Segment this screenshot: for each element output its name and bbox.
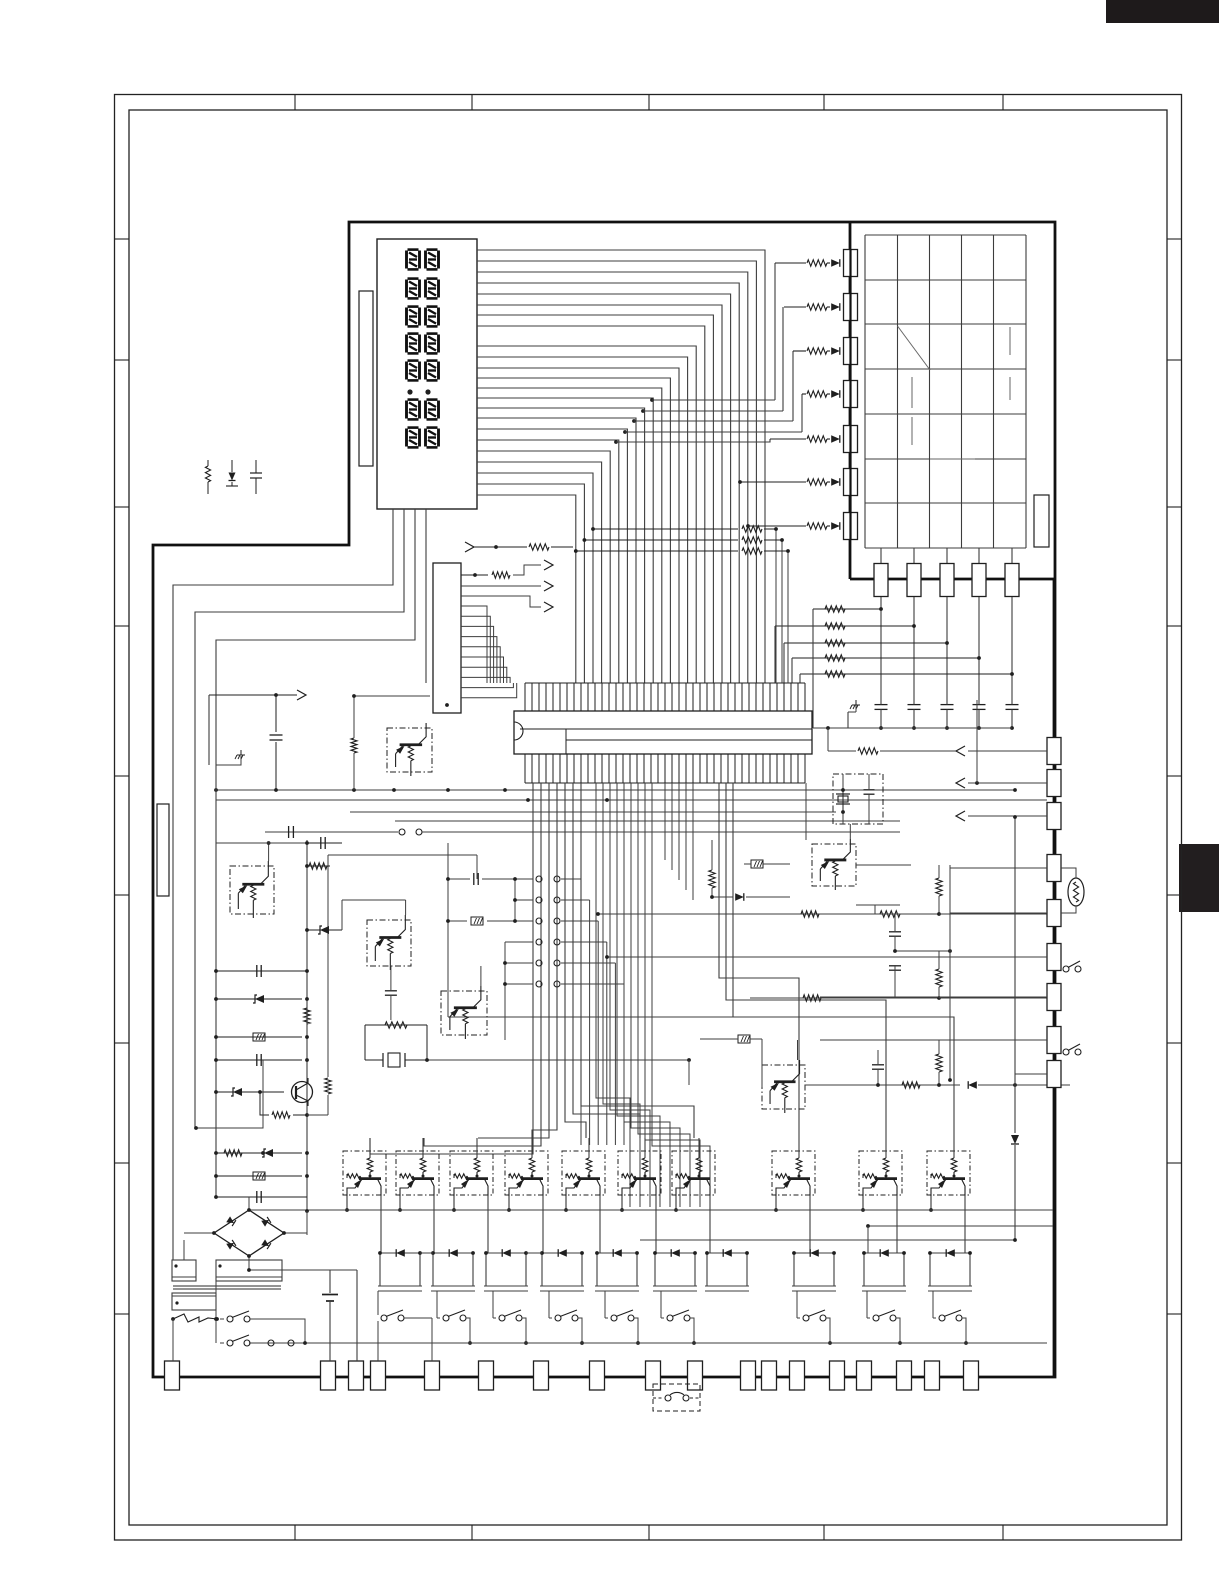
display unit DISP1 outline: [377, 239, 477, 509]
function switch S5: [667, 1315, 673, 1321]
contact pair 3: [515, 920, 533, 922]
keyboard row 4 resistor: [802, 393, 806, 395]
keyboard row 3 resistor: [793, 350, 806, 352]
ladder rung zener + transistor circle y1092: [216, 1091, 260, 1093]
arrow feed wire y547: [465, 542, 474, 552]
legend capacitor symbol: [255, 460, 257, 473]
ground symbol near columns: [855, 700, 857, 705]
legend diode symbol: [231, 460, 233, 472]
IC1 bottom fan to driver row: [370, 783, 533, 1154]
keyboard row 2 connector: [844, 294, 858, 321]
driver transistor Q4: [505, 1151, 548, 1195]
keyboard row 2 resistor: [784, 306, 806, 308]
bottom connector pin x797: [790, 1361, 805, 1390]
keyscan return resistor wire: [827, 728, 829, 751]
function switch S6: [803, 1315, 809, 1321]
right connector column wire: [1053, 579, 1056, 1377]
relay diode cell D3: [486, 1252, 526, 1254]
contact pair 6: [505, 983, 533, 985]
rail y1240: [640, 1239, 1015, 1241]
contact pair 1: [515, 878, 533, 880]
power entry box: [172, 1293, 216, 1310]
display bottom pin wire 4: [425, 509, 427, 683]
contact pair 4: [505, 941, 533, 943]
wire from ladder to resonator: [196, 1060, 263, 1128]
crystal X1 symbol: [836, 793, 850, 795]
driver transistor Q8: [772, 1151, 815, 1195]
display digit row 5: [407, 361, 420, 381]
bridge rectifier DB1: [214, 1210, 284, 1256]
crystal load capacitor: [864, 789, 875, 791]
right connector CN2-5: [1047, 900, 1061, 927]
capacitor above Q12: [307, 842, 342, 844]
relay diode cell D7: [707, 1252, 747, 1254]
horizontal power rail A: [216, 789, 1015, 791]
thermistor F3: [738, 1035, 750, 1043]
relay diode cell D5: [597, 1252, 637, 1254]
display side bar: [359, 291, 373, 466]
connector CN1 (left of IC): [433, 563, 461, 713]
bottom connector pin x748: [741, 1361, 756, 1390]
transistor Q16 block: [762, 1065, 805, 1109]
right connector CN2-6: [1047, 944, 1061, 971]
battery B1 loop: [330, 1269, 357, 1271]
wire x1015 vertical: [1014, 817, 1016, 1133]
function switch S8: [939, 1315, 945, 1321]
border zone ticks right: [1167, 238, 1182, 240]
capacitor to contact block: [476, 855, 478, 879]
rail y951: [895, 950, 950, 952]
driver transistor Q6: [618, 1151, 661, 1195]
IC1 top pin row: [525, 682, 805, 684]
bottom connector pin x837: [830, 1361, 845, 1390]
rail y1085 with diode: [805, 1084, 960, 1086]
IC1 bottom fan to right drivers: [719, 783, 799, 1138]
CN1 arrow signal 3: [461, 596, 541, 607]
relay diode cell D4: [542, 1252, 582, 1254]
resonator loop: [365, 1024, 427, 1026]
rail y998: [750, 997, 939, 999]
relay diode cell D6: [655, 1252, 695, 1254]
key matrix column 4 connector: [978, 548, 980, 567]
thermistor TH1 (oval): [1068, 878, 1084, 906]
CN1 output wires to IC: [461, 606, 487, 683]
contact pair 5: [505, 962, 533, 964]
relay diode cell D2: [433, 1252, 473, 1254]
diode cell top bus: [420, 1252, 433, 1254]
right connector CN2-2: [1047, 770, 1061, 797]
right connector CN2-3: [1047, 803, 1061, 830]
main circuit enclosure box: [153, 222, 1055, 1377]
function switch S1: [443, 1315, 449, 1321]
right mid resistor v1: [936, 878, 942, 896]
keyboard row 4 diode: [827, 393, 830, 395]
power switch S0a: [220, 1318, 224, 1320]
three bias resistors: [593, 528, 738, 530]
ladder rung thermistor y1037: [216, 1036, 302, 1038]
microcontroller IC1 body: [514, 711, 812, 754]
right connector CN2-9: [1047, 1061, 1061, 1088]
keyboard row 7 resistor: [748, 525, 806, 527]
border zone ticks left: [115, 238, 130, 240]
ladder rung cap y971: [216, 970, 302, 972]
ladder vertical resistor: [304, 1008, 310, 1024]
resistor below IC: [709, 870, 715, 888]
keyboard connector chain wire: [849, 249, 851, 540]
zener below Q12: [307, 929, 342, 931]
keyboard row 7 connector: [844, 513, 858, 540]
bottom connector pin x328: [321, 1361, 336, 1390]
reset resistor r1: [856, 904, 900, 906]
cap v mid: [889, 931, 901, 933]
driver transistor Q2: [396, 1151, 439, 1195]
crystal X1 block: [833, 774, 883, 824]
thermistor F2: [751, 860, 763, 868]
keyboard row 5 diode: [827, 438, 830, 440]
capacitor C (left mid): [275, 695, 277, 732]
display digit row 2: [407, 279, 420, 299]
left edge connector bar: [157, 804, 169, 896]
page edge zone marker (black): [1179, 844, 1219, 912]
right switch SW-A: [1063, 966, 1069, 972]
driver emitter rail: [249, 1209, 1053, 1211]
resistor below rail A: [351, 738, 357, 753]
left ladder rails: [215, 765, 217, 1197]
right connector CN2-4: [1047, 855, 1061, 882]
right connector CN2-1: [1047, 738, 1061, 765]
key matrix column 2 connector: [913, 548, 915, 567]
horizontal rail D: [395, 820, 900, 822]
keyboard row 5 connector: [844, 426, 858, 453]
Q15 wiring: [849, 824, 851, 839]
keyboard row 2 diode: [827, 306, 830, 308]
bottom connector pin x904: [897, 1361, 912, 1390]
ladder rung cap y1197: [216, 1196, 302, 1198]
breaker symbol: [171, 1317, 175, 1321]
transistor Q15 block: [812, 844, 856, 886]
long mid rail y1017: [448, 1016, 733, 1018]
driver transistor Q9: [859, 1151, 902, 1195]
cap under Q13: [390, 966, 392, 990]
relay diode cell D10: [930, 1252, 970, 1254]
wire from CN1 bottom: [445, 703, 449, 707]
right connector arrows: [968, 750, 1047, 752]
border zone ticks bottom: [294, 1525, 296, 1540]
keyboard row 1 resistor: [775, 262, 806, 264]
display output wire fan: [477, 250, 765, 683]
outer border frame: [115, 95, 1182, 1541]
key matrix column 5 connector: [1011, 548, 1013, 567]
bottom connector pin x769: [762, 1361, 777, 1390]
ground stub (left mid): [216, 756, 241, 765]
bottom connector pin x971: [964, 1361, 979, 1390]
display digit row 7: [407, 428, 420, 448]
diode D20: [712, 896, 733, 898]
contact pair on rail E: [399, 829, 405, 835]
column common ground wire: [813, 727, 1012, 729]
IC1 bottom pin row: [525, 782, 805, 784]
CN1 arrow signal 2: [461, 585, 541, 587]
key matrix column 1 connector: [880, 548, 882, 567]
inner border frame: [129, 110, 1167, 1525]
bottom connector pin x653: [646, 1361, 661, 1390]
display digit row 1: [407, 250, 420, 270]
driver transistor Q7: [672, 1151, 715, 1195]
isolated contact pair: [268, 1340, 274, 1346]
signal wire with arrow (left mid): [209, 694, 276, 696]
driver transistor Q5: [562, 1151, 605, 1195]
door switch (dashed): [653, 1384, 700, 1411]
display bottom pin wires: [173, 509, 393, 1260]
mains double underline: [173, 1285, 281, 1287]
display digit row 6: [407, 400, 420, 420]
function switch S2: [499, 1315, 505, 1321]
key matrix grid: [864, 235, 866, 548]
bottom connector pin x541: [534, 1361, 549, 1390]
resistor above Q12: [307, 865, 330, 867]
keyboard row 6 resistor: [740, 481, 806, 483]
legend resistor symbol: [207, 460, 209, 466]
function switch S7: [873, 1315, 879, 1321]
ladder rung zener y999: [216, 998, 302, 1000]
ladder rung resistor+zener y1153: [216, 1152, 302, 1154]
transistor Q11 (circle): [292, 1082, 313, 1103]
resistor right of Q11 (x328 branch): [327, 855, 329, 1077]
thermistor to contact block: [448, 920, 467, 922]
mains block box1: [172, 1260, 196, 1281]
rail y1226: [868, 1225, 1053, 1227]
keyboard row 5 resistor: [770, 438, 806, 440]
switch by battery S1: [381, 1315, 387, 1321]
relay diode cell D9: [864, 1252, 904, 1254]
bottom connector pin x378: [371, 1361, 386, 1390]
Q12 collector cap wire: [268, 843, 270, 861]
transistor Q12 block: [230, 866, 274, 914]
IC1 bottom verticals: [664, 783, 666, 860]
display digit row 3: [407, 307, 420, 327]
contact block frame: [514, 879, 516, 921]
keyboard row 7 diode: [827, 525, 830, 527]
keyboard row 3 diode: [827, 350, 830, 352]
bottom connector pin x864: [857, 1361, 872, 1390]
function switch S4: [611, 1315, 617, 1321]
keyboard row5 direct stair wire: [614, 440, 618, 444]
page corner tab (black): [1106, 0, 1219, 23]
transistor Q10 block: [387, 728, 432, 772]
contact pair 2: [515, 899, 533, 901]
driver transistor Q10: [927, 1151, 970, 1195]
key matrix aux rectangle: [1034, 495, 1049, 547]
keyboard row 4 connector: [844, 381, 858, 408]
horizontal power rail B: [216, 799, 1047, 801]
right rail x950 wires: [948, 1078, 952, 1082]
relay diode cell D1: [380, 1252, 420, 1254]
display digit row 4: [407, 334, 420, 354]
column pull resistors: [813, 608, 881, 610]
right mid rail y914: [598, 913, 939, 915]
driver transistor Q1: [343, 1151, 386, 1195]
keyboard section divider (thick): [849, 222, 852, 579]
column filter capacitors: [875, 704, 888, 706]
Q14 connections: [480, 966, 482, 986]
border zone ticks top: [294, 95, 296, 111]
cap v mid2: [889, 965, 901, 967]
key matrix internal key marks: [898, 326, 931, 370]
keyboard row 6 connector: [844, 469, 858, 496]
bottom connector pin x356: [349, 1361, 364, 1390]
key matrix column 3 connector: [946, 548, 948, 567]
driver transistor Q3: [450, 1151, 493, 1195]
function switch S3: [555, 1315, 561, 1321]
ceramic resonator X2: [365, 1059, 383, 1061]
mains block box2: [216, 1260, 282, 1281]
Q11 emitter resistor: [260, 1092, 269, 1115]
keyboard row 1 diode: [827, 262, 830, 264]
wire y855 from x328: [328, 854, 477, 856]
transistor Q13 block: [367, 920, 411, 966]
mid vertical bus x448: [447, 843, 449, 995]
right mid resistor v2: [936, 969, 942, 987]
right connector feed wires: [950, 867, 1047, 869]
transistor Q14 block: [441, 991, 487, 1035]
CN1 arrow signal 1: [461, 574, 488, 576]
cap v at 878,1067: [872, 1064, 884, 1066]
keyboard row stair wires: [650, 398, 654, 402]
ladder rung thermistor y1176: [216, 1175, 302, 1177]
keyboard row 1 connector: [844, 250, 858, 277]
diode D21 vertical: [1011, 1135, 1019, 1144]
capacitor left of Q13: [342, 899, 406, 901]
right connector CN2-7: [1047, 984, 1061, 1011]
power switch S0b: [227, 1340, 233, 1346]
bottom connector pin x172: [165, 1361, 180, 1390]
bottom connector pin x597: [590, 1361, 605, 1390]
right mid resistor v3: [936, 1054, 942, 1072]
horizontal rail E with series capacitor: [265, 831, 398, 833]
relay diode cell D8: [794, 1252, 834, 1254]
bottom common rail: [249, 1342, 1047, 1344]
keyboard row 3 connector: [844, 338, 858, 365]
keyboard row 6 diode: [827, 481, 830, 483]
crystal node wires: [805, 783, 807, 840]
bottom connector pin x486: [479, 1361, 494, 1390]
display colon dots: [407, 389, 412, 394]
ladder rung cap y1060: [216, 1059, 302, 1061]
IC1 bottom fan to switch columns: [596, 783, 630, 1207]
bridge connections: [248, 1197, 250, 1210]
horizontal rail C: [350, 811, 836, 813]
bottom connector pin x932: [925, 1361, 940, 1390]
right switch SW-B: [1063, 1049, 1069, 1055]
wire to bottom-left connector: [172, 1319, 174, 1361]
bottom connector pin x432: [425, 1361, 440, 1390]
right connector CN2-8: [1047, 1027, 1061, 1054]
bottom connector pin x695: [688, 1361, 703, 1390]
